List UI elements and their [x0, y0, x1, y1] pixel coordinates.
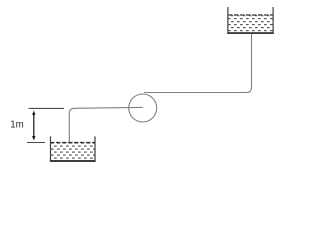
svg-text:1m: 1m: [10, 120, 23, 131]
